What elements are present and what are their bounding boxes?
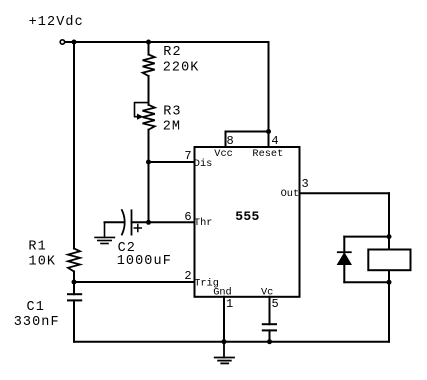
svg-text:5: 5: [272, 297, 279, 311]
wire bottom rail: [74, 341, 389, 343]
diode D1 triangle: [338, 253, 352, 265]
wire top rail: [65, 41, 268, 43]
svg-text:R1: R1: [28, 240, 46, 255]
ground main: [215, 342, 234, 364]
svg-text:C1: C1: [27, 300, 45, 315]
svg-text:4: 4: [271, 134, 278, 148]
R3 wiper arrowhead: [137, 114, 144, 120]
C2 plus sign: [134, 225, 141, 232]
svg-text:Vcc: Vcc: [214, 148, 233, 160]
svg-text:R3: R3: [163, 105, 181, 120]
svg-text:3: 3: [302, 177, 309, 191]
wire ground to C2: [105, 221, 124, 223]
pin 4 stub: [268, 132, 270, 148]
wire out drop: [388, 193, 390, 236]
wire C3 to rail: [269, 330, 271, 341]
wire relay vertical: [388, 237, 390, 283]
terminal +12Vdc: [60, 40, 64, 44]
IC U1 555 timer body: [195, 147, 300, 297]
wire diode branch upper: [343, 237, 345, 253]
svg-text:2M: 2M: [163, 120, 181, 135]
wire to pin 2: [74, 281, 195, 283]
ground C2: [95, 222, 114, 243]
node thr junction: [146, 220, 151, 225]
wire R3 to dis node: [148, 130, 150, 223]
svg-text:Dis: Dis: [194, 158, 213, 170]
diode D1 (flyback) cathode bar: [338, 251, 351, 253]
node trig junction: [72, 280, 77, 285]
wire pin 3 out: [300, 192, 390, 194]
svg-text:R2: R2: [163, 45, 181, 60]
wire R2 to R3: [148, 76, 150, 105]
resistor R2: [143, 55, 155, 77]
resistor R1: [68, 249, 80, 272]
relay coil K1: [368, 250, 410, 271]
capacitor C2 curved plate: [122, 210, 125, 234]
svg-text:Thr: Thr: [194, 217, 213, 229]
node R2 top: [146, 40, 151, 45]
node C3 rail: [267, 339, 272, 344]
svg-text:7: 7: [184, 149, 191, 163]
pin 8 stub: [225, 132, 227, 148]
wire C2 to thr node: [132, 221, 149, 223]
wire left rail upper: [73, 42, 75, 249]
svg-text:2: 2: [184, 269, 191, 283]
wire left rail below R1: [73, 272, 75, 295]
pin 1 stub: [223, 297, 225, 342]
svg-text:6: 6: [184, 210, 191, 224]
node relay bottom: [387, 280, 392, 285]
svg-text:8: 8: [227, 134, 234, 148]
capacitor C1: [68, 294, 81, 300]
node left rail / top: [72, 40, 77, 45]
capacitor C2 straight plate: [131, 210, 133, 234]
node relay top: [387, 234, 392, 239]
wire relay top link: [344, 236, 389, 238]
svg-text:+12Vdc: +12Vdc: [29, 15, 84, 30]
wire to pin 6: [149, 221, 195, 223]
wire left rail lower: [73, 300, 75, 341]
svg-text:1000uF: 1000uF: [117, 254, 172, 269]
wire to pin 7: [149, 161, 195, 163]
wire top right drop to reset: [268, 42, 270, 132]
wire R2 top stub: [148, 42, 150, 55]
svg-text:10K: 10K: [29, 255, 57, 270]
svg-text:330nF: 330nF: [14, 315, 60, 330]
node dis junction: [146, 160, 151, 165]
wire vcc-reset link: [226, 131, 269, 133]
potentiometer R3: [143, 105, 155, 130]
R3 wiper tap: [135, 103, 149, 117]
svg-text:1: 1: [226, 297, 233, 311]
wire relay to bottom rail: [388, 282, 390, 342]
node reset/vcc junction: [266, 129, 271, 134]
capacitor C3: [263, 324, 276, 330]
svg-text:555: 555: [235, 209, 259, 224]
svg-text:Out: Out: [281, 188, 300, 200]
wire relay bottom link: [344, 281, 389, 283]
pin 5 stub: [269, 297, 271, 324]
node gnd rail: [222, 339, 227, 344]
svg-text:220K: 220K: [163, 60, 200, 75]
wire diode branch lower: [343, 265, 345, 283]
svg-text:Reset: Reset: [252, 148, 283, 160]
